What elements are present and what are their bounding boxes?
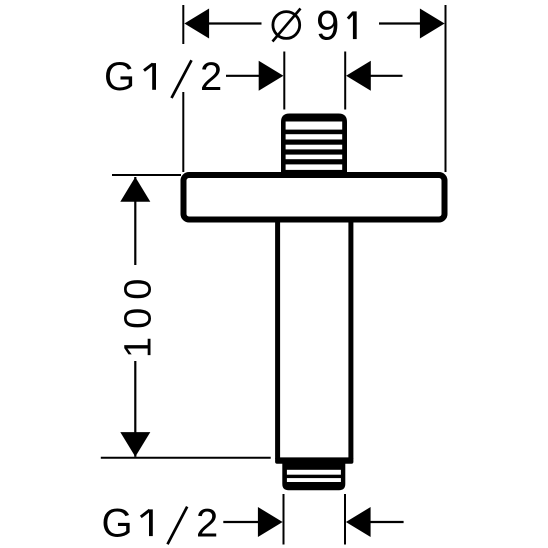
- label G 1/2 (top): digit 1 (drawn): [144, 63, 154, 90]
- thread dim (top): right extension line: [344, 52, 346, 110]
- thread dim (top): left leader line: [226, 75, 260, 77]
- dimension 100: bottom arrowhead pointing down: [120, 432, 150, 457]
- thread dim (bottom): left extension line: [283, 494, 285, 545]
- dimension 100: bottom extension line: [101, 457, 271, 459]
- label G 1/2 (bottom): digit 1 (drawn): [141, 509, 151, 536]
- thread dim (bottom): right leader line: [370, 521, 404, 523]
- dimension Ø91: right extension line: [445, 5, 447, 172]
- thread dim (top): right arrowhead pointing left: [346, 61, 371, 91]
- threaded connector (bottom): black body with chamfered bottom corners: [282, 463, 345, 490]
- thread dim (top): right leader line: [370, 75, 403, 77]
- dimension 100: dimension line lower segment: [134, 361, 136, 457]
- dimension Ø91: right arrowhead: [420, 9, 445, 39]
- svg-text:2: 2: [200, 55, 222, 99]
- label G 1/2 (bottom): [102, 501, 219, 545]
- thread dim (bottom): right arrowhead pointing left: [346, 507, 371, 537]
- thread dim (bottom): left leader line: [223, 521, 259, 523]
- thread dim (top): left extension line: [283, 52, 285, 110]
- threaded connector (top): black body with chamfered top corners: [281, 114, 347, 176]
- flange (ceiling plate): [184, 175, 445, 220]
- svg-text:100: 100: [117, 271, 159, 358]
- dimension Ø91: left extension line (broken for G 1/2 text): [182, 5, 184, 172]
- threaded connector (top): white thread grooves: [286, 122, 343, 170]
- thread dim (bottom): left arrowhead pointing right: [258, 507, 283, 537]
- pipe: right wall: [348, 219, 353, 459]
- svg-text:G: G: [102, 501, 133, 545]
- svg-text:9: 9: [316, 1, 339, 48]
- dimension 100: dimension line upper segment: [134, 177, 136, 265]
- svg-text:G: G: [104, 55, 135, 99]
- thread dim (top): left arrowhead pointing right: [259, 61, 284, 91]
- pipe: left wall: [275, 219, 280, 459]
- dimension Ø91: dimension line left segment: [206, 22, 262, 24]
- label G 1/2 (top): [104, 55, 222, 99]
- pipe: bottom end bar: [275, 457, 353, 463]
- threaded connector (bottom): white thread grooves: [287, 470, 341, 482]
- label G 1/2 (top): slash: [172, 60, 192, 98]
- dimension Ø91: left arrowhead: [184, 9, 209, 39]
- thread dim (bottom): right extension line: [344, 494, 346, 545]
- dimension 100: top arrowhead pointing up: [120, 177, 150, 202]
- dimension Ø91: diameter symbol (circle + slash): [273, 9, 301, 42]
- label G 1/2 (bottom): slash: [168, 507, 188, 545]
- dimension Ø91: digit 1 (drawn): [348, 11, 355, 39]
- svg-text:2: 2: [196, 501, 218, 545]
- dimension 100: top extension line: [112, 174, 181, 176]
- dimension Ø91: dimension line right segment: [379, 22, 422, 24]
